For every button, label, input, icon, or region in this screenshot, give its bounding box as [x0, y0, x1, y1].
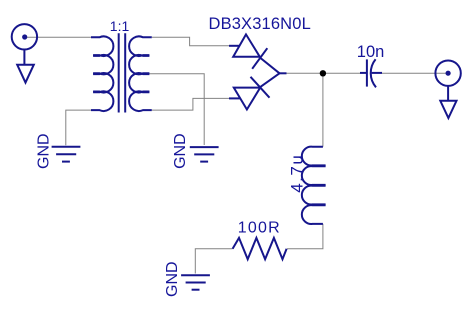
- transformer T1 core: [119, 33, 126, 112]
- wire: transformer secondary bottom to diode D2 anode: [152, 98, 230, 110]
- wire: diode output node to capacitor: [287, 72, 361, 74]
- wire: transformer secondary top to diode D1 anode: [152, 37, 230, 46]
- diode output stub: [280, 72, 287, 74]
- capacitor C1 10n: [360, 59, 382, 87]
- diode D1 (top half of DB3X316N0L): [229, 34, 280, 73]
- connector P2 (right port): [435, 60, 460, 118]
- svg-text:10n: 10n: [357, 43, 385, 61]
- ground GND1: [52, 147, 81, 162]
- svg-text:GND: GND: [172, 133, 189, 169]
- diode D2 (bottom half of DB3X316N0L): [229, 73, 280, 109]
- wire: transformer secondary center tap to GND2: [149, 74, 204, 145]
- svg-text:GND: GND: [164, 261, 181, 297]
- wire: capacitor to right connector: [382, 72, 446, 74]
- svg-text:100R: 100R: [238, 220, 281, 237]
- ground GND3: [181, 275, 210, 289]
- wire: inductor bottom to resistor right end: [287, 224, 323, 249]
- ground GND2: [190, 147, 219, 162]
- junction dot: [320, 70, 326, 76]
- svg-text:4.7u: 4.7u: [288, 154, 307, 193]
- transformer T1 primary winding (left): [91, 36, 113, 111]
- wire: left connector to transformer primary top: [27, 36, 92, 38]
- inductor L1: [302, 147, 326, 224]
- wire: junction down to inductor L1: [322, 73, 324, 146]
- wire: resistor left end to GND3: [195, 249, 232, 274]
- wire: transformer primary bottom to GND1: [66, 110, 93, 145]
- resistor R1 100R: [233, 238, 287, 259]
- transformer T1 secondary winding (right): [129, 36, 152, 111]
- svg-text:GND: GND: [36, 133, 53, 169]
- svg-text:1:1: 1:1: [110, 18, 130, 34]
- svg-text:DB3X316N0L: DB3X316N0L: [209, 15, 311, 33]
- connector P1 (left port): [12, 24, 37, 83]
